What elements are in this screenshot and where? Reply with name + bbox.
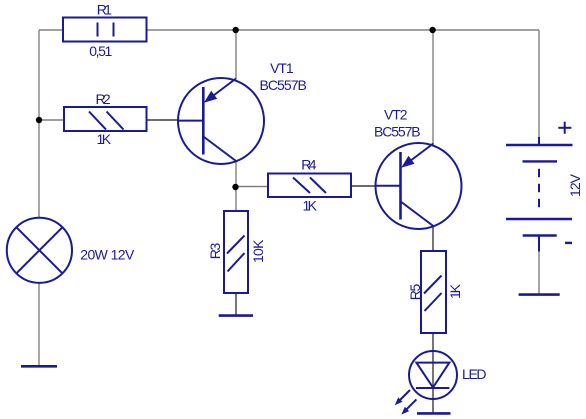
svg-text:10K: 10K <box>250 239 266 263</box>
svg-text:BC557B: BC557B <box>260 77 307 93</box>
svg-text:VT2: VT2 <box>384 107 408 123</box>
svg-text:R1: R1 <box>97 1 112 17</box>
svg-text:1K: 1K <box>97 131 112 147</box>
svg-text:R2: R2 <box>96 91 111 107</box>
svg-text:R5: R5 <box>407 284 423 301</box>
svg-text:1K: 1K <box>302 197 317 213</box>
svg-text:1K: 1K <box>447 283 463 299</box>
svg-text:20W 12V: 20W 12V <box>80 247 135 263</box>
svg-text:VT1: VT1 <box>270 60 294 76</box>
svg-text:12V: 12V <box>567 173 583 197</box>
svg-text:R4: R4 <box>301 157 316 173</box>
svg-text:LED: LED <box>462 366 487 382</box>
svg-text:0,51: 0,51 <box>89 43 112 59</box>
svg-text:R3: R3 <box>207 243 223 260</box>
svg-text:BC557B: BC557B <box>374 124 421 140</box>
